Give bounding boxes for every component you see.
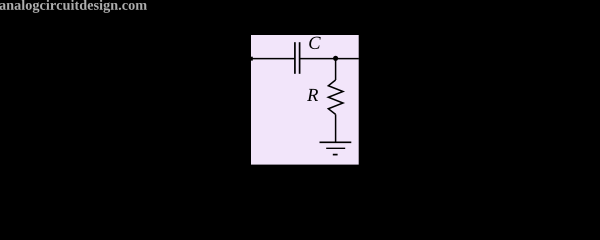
wire from junction down to resistor [335, 59, 337, 81]
node junction dot [333, 56, 338, 61]
capacitor C [295, 42, 300, 74]
resistor R [328, 80, 343, 114]
schematic background panel [251, 35, 359, 165]
ground [320, 142, 352, 154]
label C [309, 37, 320, 49]
wire input terminal tick [251, 57, 253, 61]
wire from resistor to ground [335, 114, 337, 142]
label R [307, 89, 318, 101]
wire from input to capacitor left plate [251, 58, 295, 60]
watermark text [0, 0, 147, 13]
wire from capacitor right plate to output [300, 58, 359, 60]
